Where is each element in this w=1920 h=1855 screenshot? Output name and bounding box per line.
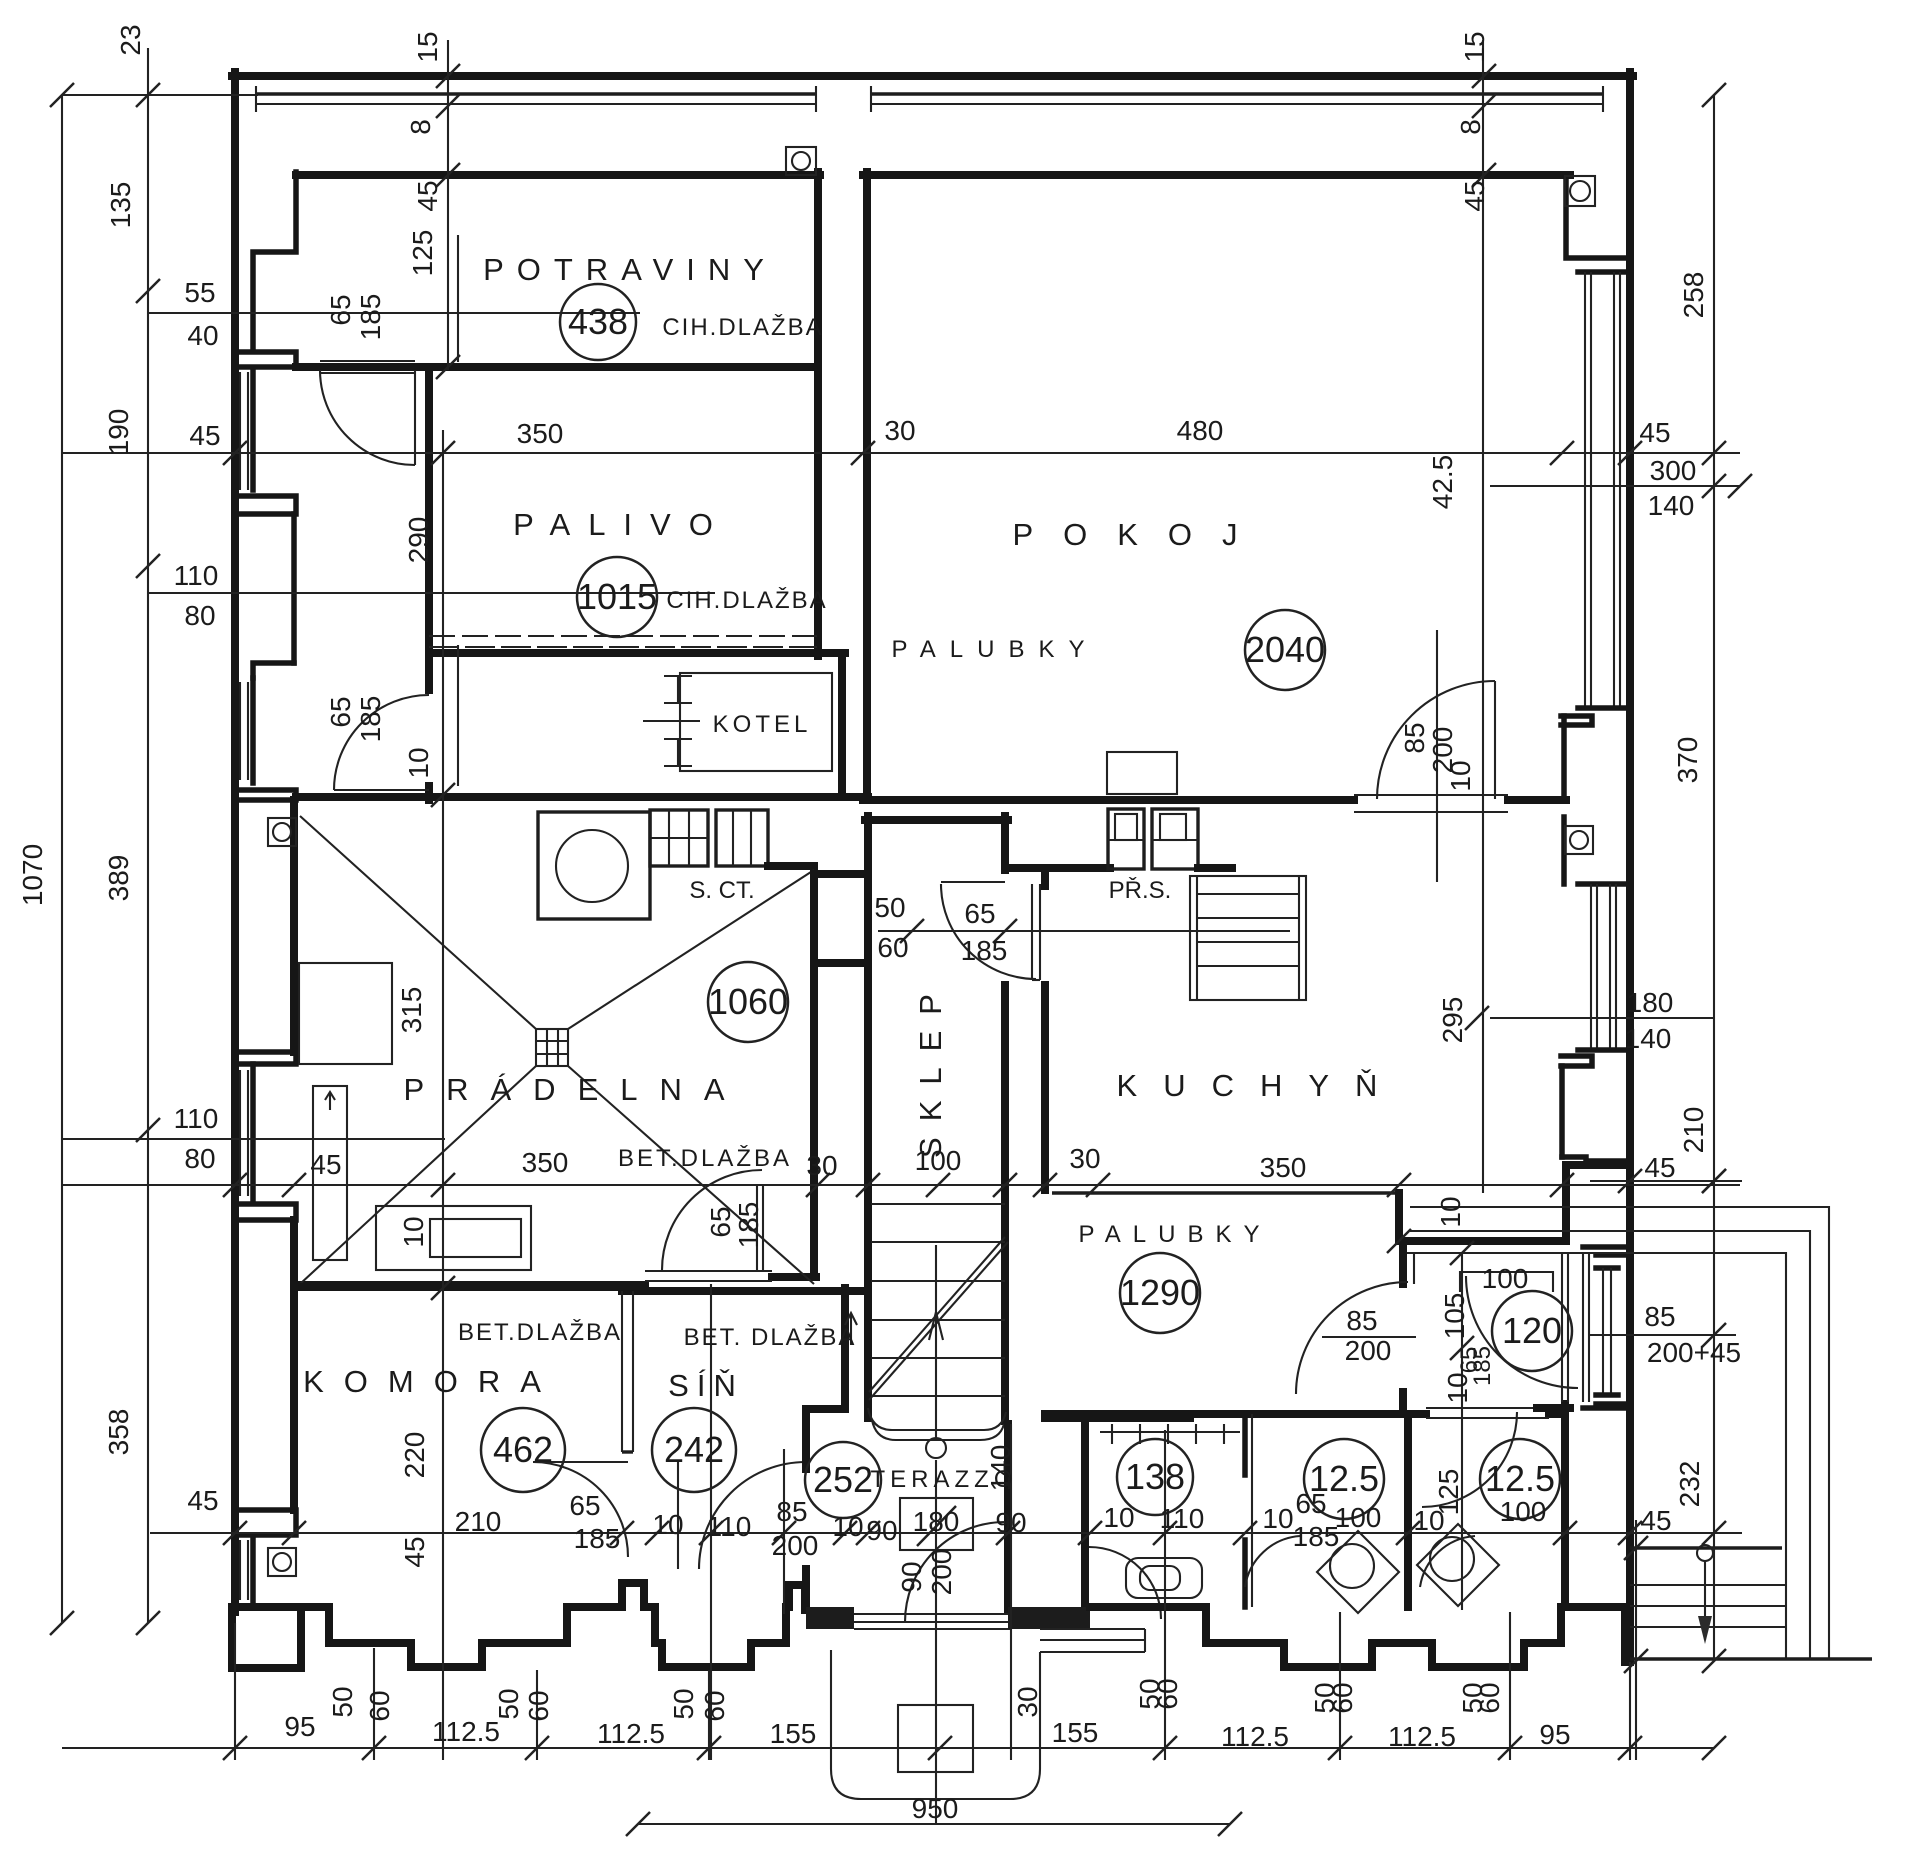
dim line left vertical 1070 <box>61 95 63 1623</box>
svg-text:CIH.DLAŽBA: CIH.DLAŽBA <box>666 587 827 614</box>
komora west wall <box>290 1220 298 1510</box>
svg-text:1070: 1070 <box>17 844 48 906</box>
svg-text:15: 15 <box>412 31 443 62</box>
svg-text:155: 155 <box>770 1718 817 1749</box>
se terrace nested steps <box>1410 1207 1872 1659</box>
svg-text:300: 300 <box>1650 455 1697 486</box>
porch outline rounded <box>831 1650 1040 1799</box>
west window W2 <box>240 678 253 783</box>
svg-text:10: 10 <box>652 1509 683 1540</box>
sklep stair direction arrow <box>926 1245 946 1458</box>
dim bottom 950 line <box>638 1823 1230 1825</box>
pradelna west wall <box>290 800 298 1052</box>
dim 180 box <box>900 1498 973 1550</box>
svg-text:180: 180 <box>1627 987 1674 1018</box>
pokoj left wall <box>863 172 871 800</box>
svg-text:15: 15 <box>1459 31 1490 62</box>
porch side steps right <box>1040 1629 1145 1652</box>
floor drain grid <box>536 1029 568 1066</box>
area circle 252 <box>805 1442 881 1518</box>
west wall face segment <box>291 514 297 663</box>
sin right wall upper <box>806 1288 845 1452</box>
front door arc <box>905 1522 1005 1622</box>
svg-text:350: 350 <box>1260 1152 1307 1183</box>
dim chain y1533 <box>150 1532 1742 1534</box>
east window A top cap <box>1578 269 1630 275</box>
east wall step at terrace door <box>1562 1157 1630 1161</box>
svg-text:252: 252 <box>813 1459 873 1500</box>
sklep stairs stringer diagonal <box>869 1237 1008 1400</box>
kuchyn left wall lower <box>1041 985 1049 1190</box>
s.ct. flue box 2 <box>716 810 768 866</box>
svg-text:30: 30 <box>806 1150 837 1181</box>
svg-text:105: 105 <box>1439 1293 1470 1340</box>
area circle 125a <box>1304 1439 1384 1519</box>
svg-text:350: 350 <box>517 418 564 449</box>
kuchyn annex right wall upper <box>1395 1193 1403 1241</box>
west wall pilaster 6 <box>236 1510 296 1535</box>
west outer wall <box>231 72 239 1612</box>
roof overhang ledge left segment <box>255 86 817 112</box>
svg-text:200: 200 <box>1345 1335 1392 1366</box>
svg-text:45: 45 <box>310 1149 341 1180</box>
palivo left wall <box>425 367 433 690</box>
sw corner pillar <box>232 1612 301 1668</box>
svg-text:SKLEP: SKLEP <box>913 978 948 1158</box>
dim 100 bracket room120 <box>1460 1272 1553 1292</box>
east window B cap top <box>1578 881 1630 887</box>
front wall block left of door <box>806 1607 854 1629</box>
area circle 438 <box>560 284 636 360</box>
svg-text:350: 350 <box>522 1147 569 1178</box>
svg-text:50: 50 <box>874 892 905 923</box>
area circle 138 <box>1117 1439 1193 1515</box>
svg-text:200+45: 200+45 <box>1647 1337 1741 1368</box>
svg-text:10: 10 <box>1103 1502 1134 1533</box>
dim vertical x1510 <box>1509 1612 1511 1760</box>
svg-text:1290: 1290 <box>1120 1272 1200 1313</box>
dim right 180/140 <box>1490 1017 1714 1019</box>
kuchyn annex bottom wall <box>1045 1414 1190 1422</box>
sklep corridor top wall <box>865 816 1008 824</box>
svg-text:110: 110 <box>707 1511 752 1542</box>
north outer wall <box>232 72 1633 80</box>
washing machine <box>538 812 650 919</box>
pradelna-sin door threshold <box>645 1270 772 1272</box>
svg-text:PRÁDELNA: PRÁDELNA <box>403 1072 746 1107</box>
pradelna bottom wall <box>294 1281 645 1289</box>
pradelna top wall <box>296 793 868 801</box>
door komora-sin arc <box>533 1462 628 1557</box>
sklep corridor left wall <box>864 816 872 1418</box>
dim vertical x711 sin <box>710 1284 712 1760</box>
area circle 125b <box>1480 1439 1560 1519</box>
dim vertical x936 porch <box>935 1460 937 1824</box>
svg-text:295: 295 <box>1437 997 1468 1044</box>
svg-text:112.5: 112.5 <box>432 1716 500 1747</box>
svg-text:BET.DLAŽBA: BET.DLAŽBA <box>458 1319 622 1346</box>
sin top wall edge <box>622 1287 868 1295</box>
wall between wc1 and wc2 <box>1404 1414 1412 1607</box>
svg-text:950: 950 <box>912 1793 959 1824</box>
svg-text:258: 258 <box>1678 272 1709 319</box>
svg-text:10: 10 <box>1262 1503 1293 1534</box>
svg-text:PŘ.S.: PŘ.S. <box>1109 877 1172 904</box>
svg-text:60: 60 <box>1327 1682 1358 1713</box>
svg-text:45: 45 <box>187 1485 218 1516</box>
svg-text:POKOJ: POKOJ <box>1012 517 1267 552</box>
svg-text:8: 8 <box>405 119 436 135</box>
svg-text:90: 90 <box>995 1507 1026 1538</box>
trough box left <box>299 963 392 1064</box>
palivo/kotel divider dashed <box>429 635 817 637</box>
room120 east door arc <box>1466 1276 1578 1388</box>
door corridor-kuchyn arc <box>941 884 1036 979</box>
svg-text:95: 95 <box>1539 1719 1570 1750</box>
svg-text:100: 100 <box>1500 1496 1547 1527</box>
west wall pilaster 2 <box>236 496 296 514</box>
svg-text:100: 100 <box>1482 1263 1529 1294</box>
room120 left wall <box>1399 1241 1407 1284</box>
svg-text:85: 85 <box>1644 1301 1675 1332</box>
chimney flue box 2 <box>1152 809 1198 869</box>
svg-text:185: 185 <box>961 935 1008 966</box>
svg-text:185: 185 <box>355 294 386 341</box>
door 138 arc <box>1089 1547 1161 1619</box>
dim main chain y1185 <box>62 1184 1740 1186</box>
boiler niche right wall <box>838 653 846 797</box>
east window C (wc) caps and glazing <box>1596 1255 1630 1404</box>
dim vertical x443 <box>442 430 444 1760</box>
west wall pilaster 1 <box>236 352 296 367</box>
svg-text:PALUBKY: PALUBKY <box>1079 1221 1272 1248</box>
svg-text:50: 50 <box>493 1688 524 1719</box>
east window A glazing <box>1585 272 1620 708</box>
svg-text:BET.DLAŽBA: BET.DLAŽBA <box>618 1145 792 1172</box>
svg-text:50: 50 <box>668 1688 699 1719</box>
east window A bottom cap / pilaster <box>1561 708 1630 725</box>
svg-text:30: 30 <box>1012 1686 1043 1717</box>
svg-text:140: 140 <box>1648 490 1695 521</box>
door palivo west lower <box>334 695 429 790</box>
svg-text:80: 80 <box>184 1143 215 1174</box>
svg-text:PALUBKY: PALUBKY <box>892 636 1099 663</box>
svg-text:190: 190 <box>103 409 134 456</box>
dim door 65/185 palivo lower extension <box>457 645 459 786</box>
dim vertical x784 <box>783 1449 785 1614</box>
door 120-wc2 threshold <box>1426 1407 1549 1409</box>
sklep corridor right wall lower <box>1001 985 1009 1421</box>
svg-text:220: 220 <box>399 1432 430 1479</box>
svg-text:232: 232 <box>1674 1461 1705 1508</box>
wc2 door arc <box>1420 1536 1475 1587</box>
dim line 110/80 upper <box>148 592 715 594</box>
svg-text:65: 65 <box>1295 1488 1326 1519</box>
east outer wall <box>1626 72 1634 1662</box>
svg-text:65: 65 <box>964 898 995 929</box>
dim vertical x1165 <box>1164 1430 1166 1760</box>
svg-text:125: 125 <box>1433 1469 1464 1516</box>
svg-text:60: 60 <box>523 1690 554 1721</box>
svg-text:138: 138 <box>1125 1456 1185 1497</box>
kuchyn partition line to annex <box>1052 1191 1399 1194</box>
area circle 2040 <box>1245 610 1325 690</box>
door corridor-kuchyn leaf <box>1032 884 1040 980</box>
room120-wc2 door arc <box>1422 1412 1517 1507</box>
window marker box west upper <box>268 818 296 846</box>
room120 east step wall <box>1566 1165 1630 1241</box>
s.ct. flue box grid <box>650 810 708 866</box>
svg-text:60: 60 <box>877 932 908 963</box>
east window B glazing <box>1591 884 1616 1050</box>
svg-text:370: 370 <box>1672 737 1703 784</box>
svg-text:CIH.DLAŽBA: CIH.DLAŽBA <box>662 314 823 341</box>
svg-text:45: 45 <box>399 1536 430 1567</box>
front wall block right of door <box>1008 1607 1090 1629</box>
dim main chain y453 <box>62 452 1740 454</box>
palivo top wall (potraviny bottom) <box>296 363 430 371</box>
svg-text:112.5: 112.5 <box>597 1718 665 1749</box>
potraviny top wall <box>296 171 820 179</box>
west window W1 <box>240 372 253 490</box>
dim texts horizontal <box>174 277 1741 1824</box>
svg-text:50: 50 <box>327 1686 358 1717</box>
pradelna right wall <box>768 866 814 1272</box>
annex top wall to room120 <box>1399 1237 1566 1245</box>
svg-text:110: 110 <box>174 560 219 591</box>
komora top wall <box>294 1283 640 1291</box>
pokoj top wall <box>863 171 1570 179</box>
svg-text:10: 10 <box>403 747 434 778</box>
svg-text:45: 45 <box>1640 1505 1671 1536</box>
south wall castellated profile left <box>232 1583 806 1667</box>
svg-text:BET. DLAŽBA: BET. DLAŽBA <box>684 1324 857 1351</box>
kuchyn top wall <box>1005 864 1110 872</box>
svg-text:290: 290 <box>403 517 434 564</box>
dim right 300/140 <box>1490 485 1740 487</box>
dim line top extension <box>62 94 258 96</box>
svg-text:40: 40 <box>187 320 218 351</box>
west window W3 <box>240 1064 253 1200</box>
svg-text:45: 45 <box>1459 180 1490 211</box>
west wall pilaster 5 <box>236 1204 296 1220</box>
svg-text:10: 10 <box>1442 1372 1473 1403</box>
svg-text:85: 85 <box>1399 722 1430 753</box>
svg-text:45: 45 <box>412 180 443 211</box>
front wall left of door <box>802 1452 810 1610</box>
potraviny right wall <box>814 172 822 656</box>
svg-text:180: 180 <box>913 1506 960 1537</box>
komora-sin partition double <box>622 1291 633 1452</box>
svg-text:85: 85 <box>1346 1305 1377 1336</box>
roof overhang ledge right segment <box>870 86 1604 112</box>
pokoj bottom wall left part <box>863 796 1354 804</box>
wc1 door arc <box>1245 1536 1300 1587</box>
pradelna door leaf <box>756 1185 758 1270</box>
svg-text:135: 135 <box>105 182 136 229</box>
dim line 55/40 <box>148 312 640 314</box>
svg-text:155: 155 <box>1052 1717 1099 1748</box>
svg-text:10: 10 <box>1435 1196 1466 1227</box>
pradelna floor slope diagonals <box>300 816 814 1284</box>
svg-text:55: 55 <box>184 277 215 308</box>
svg-text:242: 242 <box>664 1429 724 1470</box>
sklep stairs steps <box>871 1204 1005 1396</box>
dim bottom chain y1748 <box>62 1747 1714 1749</box>
svg-text:185: 185 <box>355 696 386 743</box>
svg-text:125: 125 <box>407 230 438 277</box>
svg-text:80: 80 <box>184 600 215 631</box>
svg-text:112.5: 112.5 <box>1221 1721 1289 1752</box>
door arc potraviny-palivo <box>320 370 415 465</box>
svg-text:42.5: 42.5 <box>1427 455 1458 510</box>
bath sink <box>1126 1558 1202 1598</box>
dim vertical top x1484 <box>1482 40 1484 1193</box>
svg-text:10: 10 <box>1445 760 1476 791</box>
svg-text:45: 45 <box>1639 417 1670 448</box>
svg-text:140: 140 <box>985 1445 1016 1492</box>
dim vertical top x448 <box>447 40 449 370</box>
south wall castellated profile right <box>1090 1607 1625 1667</box>
dim line 110/80 lower <box>62 1138 445 1140</box>
svg-text:65: 65 <box>325 294 356 325</box>
window marker box east upper <box>1565 176 1595 206</box>
shelf tall left <box>313 1086 347 1260</box>
svg-text:389: 389 <box>103 855 134 902</box>
area circle 1015 <box>577 557 657 637</box>
dim vertical x1011 <box>1010 1424 1012 1760</box>
boiler niche top wall <box>429 649 845 657</box>
bath 138 radiator hatches <box>1100 1424 1240 1444</box>
svg-text:120: 120 <box>1502 1310 1562 1351</box>
east wall face below pokoj <box>1561 817 1567 884</box>
east wall face kuchyn <box>1559 1066 1565 1157</box>
room120 east wall caps <box>1537 1247 1630 1408</box>
dim door 65/185 palivo upper extension <box>457 235 459 362</box>
svg-text:PALIVO: PALIVO <box>513 507 731 542</box>
pokoj door threshold lines <box>1354 794 1508 796</box>
svg-text:90: 90 <box>896 1561 927 1592</box>
dim vertical x1340 <box>1339 1612 1341 1760</box>
svg-text:45: 45 <box>189 420 220 451</box>
svg-text:12.5: 12.5 <box>1485 1458 1555 1499</box>
svg-text:1015: 1015 <box>577 576 657 617</box>
dim vertical x1714 right <box>1713 95 1715 1661</box>
wc2 right wall <box>1561 1404 1569 1607</box>
bench bottom <box>376 1206 531 1270</box>
svg-text:KUCHYŇ: KUCHYŇ <box>1117 1068 1404 1103</box>
svg-text:60: 60 <box>1152 1678 1183 1709</box>
svg-text:1060: 1060 <box>708 981 788 1022</box>
porch mat square <box>898 1705 973 1772</box>
svg-text:30: 30 <box>884 415 915 446</box>
area circle 242 <box>652 1408 736 1492</box>
svg-text:POTRAVINY: POTRAVINY <box>483 252 777 287</box>
door potraviny-palivo opening jambs <box>320 360 415 362</box>
kuchyn upper stairs box <box>1190 876 1306 1000</box>
svg-text:60: 60 <box>364 1690 395 1721</box>
sklep corridor right wall upper stub <box>1001 816 1009 870</box>
west wall pilaster 3 / pradelna top corner <box>236 790 296 800</box>
svg-text:85: 85 <box>776 1496 807 1527</box>
east wall face pokoj SE <box>1561 716 1567 800</box>
terazzo right wall lower <box>1004 1424 1012 1610</box>
dim vertical x1636 <box>1635 1520 1637 1760</box>
bathroom block top wall <box>1045 1410 1426 1418</box>
window marker box east mid <box>1565 826 1593 854</box>
svg-text:358: 358 <box>103 1409 134 1456</box>
west wall pilaster 4 <box>236 1052 296 1064</box>
svg-text:210: 210 <box>455 1506 502 1537</box>
svg-text:185: 185 <box>574 1523 621 1554</box>
svg-text:65: 65 <box>569 1490 600 1521</box>
svg-text:KOMORA: KOMORA <box>303 1364 561 1399</box>
svg-text:45: 45 <box>1644 1152 1675 1183</box>
front door threshold <box>854 1614 1010 1629</box>
se terrace arrow <box>1697 1545 1713 1644</box>
svg-text:110: 110 <box>1160 1503 1205 1534</box>
svg-text:185: 185 <box>733 1202 764 1249</box>
svg-text:200: 200 <box>926 1549 957 1596</box>
wc1 toilet <box>1317 1531 1399 1613</box>
east wall NE corner inner jog <box>1566 175 1630 258</box>
dim right 85/200+45 line <box>1590 1334 1736 1336</box>
pradelna door arc <box>662 1170 762 1270</box>
dim corridor door line y931 <box>878 930 1290 932</box>
duct connectors between pradelna and corridor <box>814 870 868 878</box>
svg-text:462: 462 <box>493 1429 553 1470</box>
wc2 toilet <box>1417 1524 1499 1606</box>
svg-text:10: 10 <box>832 1511 863 1542</box>
sin-terazzo door arc <box>699 1462 806 1569</box>
svg-text:2040: 2040 <box>1245 629 1325 670</box>
window marker box potraviny top right <box>786 147 816 175</box>
kuchyn left wall upper <box>1041 868 1049 886</box>
arrow after sin dlazba <box>845 1313 857 1345</box>
dim line left vertical chain <box>147 48 149 1623</box>
west wall inner face segments <box>253 172 296 347</box>
svg-text:200: 200 <box>772 1530 819 1561</box>
kuchyn top wall right of chimney <box>1198 864 1232 872</box>
room120 east door glazing <box>1562 1253 1589 1402</box>
dim extension verticals bottom <box>235 1623 1630 1760</box>
svg-text:210: 210 <box>1678 1107 1709 1154</box>
svg-text:10: 10 <box>398 1216 429 1247</box>
svg-text:112.5: 112.5 <box>1388 1721 1456 1752</box>
pokoj door arc <box>1377 681 1495 799</box>
svg-text:95: 95 <box>284 1711 315 1742</box>
svg-text:100: 100 <box>915 1145 962 1176</box>
svg-text:60: 60 <box>699 1690 730 1721</box>
svg-text:SÍŇ: SÍŇ <box>668 1368 744 1403</box>
dim right 45 line y1181 <box>1590 1180 1742 1182</box>
svg-text:100: 100 <box>1335 1502 1382 1533</box>
svg-text:315: 315 <box>396 987 427 1034</box>
annex door arc <box>1296 1282 1408 1394</box>
svg-text:30: 30 <box>1069 1143 1100 1174</box>
svg-text:S. CT.: S. CT. <box>689 877 754 904</box>
pokoj bottom wall right part <box>1508 796 1566 804</box>
kotel boiler symbol <box>643 676 700 766</box>
svg-text:KOTEL: KOTEL <box>713 711 812 738</box>
svg-text:110: 110 <box>174 1103 219 1134</box>
pokoj door leaf <box>1494 681 1496 799</box>
bath 138 left wall <box>1081 1414 1089 1607</box>
kotel box <box>680 673 832 771</box>
svg-text:65: 65 <box>705 1206 736 1237</box>
dim vertical x1437 pokoj door <box>1436 630 1438 882</box>
terazzo inner step rounded <box>868 1408 1006 1430</box>
